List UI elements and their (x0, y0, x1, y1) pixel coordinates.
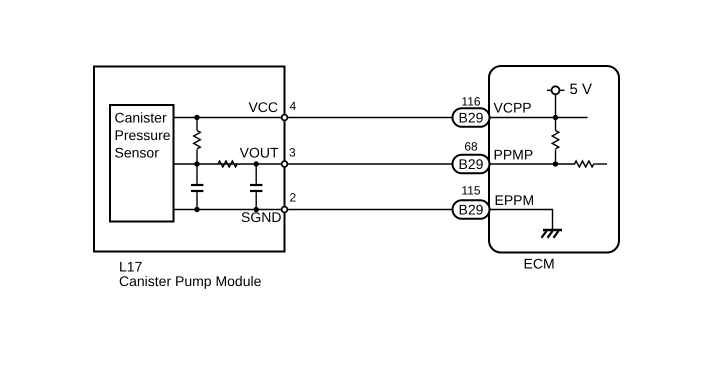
pin 4 connector circle (282, 115, 288, 121)
junction dot VCPP / 5V / R3 (553, 115, 558, 120)
connector B29 pin 68 (stadium) (453, 155, 490, 174)
connector B29 pin 116 (stadium) (453, 108, 490, 127)
svg-text:B29: B29 (459, 156, 484, 172)
5 V supply symbol (547, 86, 565, 117)
svg-text:Canister Pump Module: Canister Pump Module (119, 273, 262, 289)
wire SGND net (174, 209, 453, 211)
ground symbol (542, 230, 563, 238)
junction dot VCC / R1 (194, 115, 199, 120)
svg-text:Canister: Canister (115, 110, 167, 126)
svg-text:Pressure: Pressure (115, 127, 171, 143)
svg-text:2: 2 (290, 191, 297, 205)
resistor R4 (horizontal, PPMP line) (575, 161, 608, 167)
svg-text:SGND: SGND (241, 209, 281, 225)
pin 2 connector circle (282, 207, 288, 213)
junction dot SGND / C2 (254, 207, 259, 212)
junction dot SGND / C1 (194, 207, 199, 212)
pin 3 connector circle (282, 161, 288, 167)
svg-text:B29: B29 (459, 202, 484, 218)
wire PPMP inside ECM (489, 163, 575, 165)
wire VOUT net (174, 163, 453, 165)
svg-text:3: 3 (289, 146, 296, 160)
svg-text:115: 115 (461, 184, 480, 198)
sensor box (110, 105, 174, 222)
sensor label "Canister Pressure Sensor" (115, 110, 171, 161)
svg-text:VCPP: VCPP (494, 100, 532, 116)
svg-text:Sensor: Sensor (115, 145, 160, 161)
svg-text:ECM: ECM (524, 256, 555, 272)
resistor R3 (vertical, VCPP to PPMP) (552, 118, 559, 165)
junction dot PPMP / R3 (553, 161, 558, 166)
module box L17 (94, 67, 285, 252)
capacitor C1 (VOUT to SGND) (191, 164, 203, 210)
wire VCPP inside ECM (489, 117, 588, 119)
svg-text:B29: B29 (459, 110, 484, 126)
svg-text:VOUT: VOUT (240, 144, 279, 160)
resistor R1 (vertical, VCC to VOUT) (194, 118, 201, 165)
junction dot VOUT / R1 / C1 (194, 161, 199, 166)
wire VCC net (174, 117, 453, 119)
capacitor C2 (VOUT to SGND) (250, 164, 262, 210)
wire EPPM inside ECM (489, 210, 553, 230)
svg-text:EPPM: EPPM (495, 192, 535, 208)
svg-text:116: 116 (461, 95, 480, 109)
svg-text:68: 68 (464, 140, 478, 154)
resistor R2 (horizontal, in VOUT line) (218, 161, 237, 167)
svg-text:5 V: 5 V (570, 81, 593, 98)
svg-text:4: 4 (290, 99, 297, 113)
svg-text:VCC: VCC (248, 99, 278, 115)
ECM box (489, 66, 619, 253)
junction dot VOUT / C2 (254, 161, 259, 166)
svg-text:PPMP: PPMP (494, 147, 534, 163)
connector B29 pin 115 (stadium) (453, 200, 490, 219)
